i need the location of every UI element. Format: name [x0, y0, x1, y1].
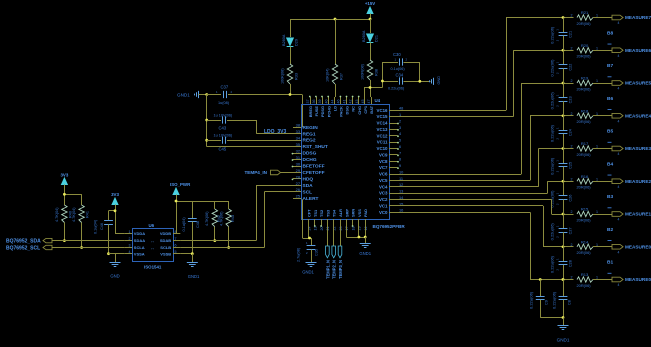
pin 47 BAT: [371, 97, 373, 104]
svg-text:C45: C45: [219, 147, 227, 152]
junction cap block: [381, 80, 384, 83]
svg-text:25: 25: [296, 194, 300, 199]
port MEASURE2: [612, 179, 623, 184]
pin 5 VSSB: [173, 253, 180, 255]
wire to port MEASURE0-: [593, 279, 612, 281]
pin 39 PDSG: [322, 97, 324, 104]
wire SDA bus: [52, 240, 125, 242]
wire to port MEASURE5: [593, 83, 612, 85]
svg-text:4: 4: [618, 119, 620, 123]
svg-text:1: 1: [596, 14, 598, 18]
svg-text:MEASURE5: MEASURE5: [625, 81, 651, 86]
wire VC0 to row9: [398, 212, 531, 214]
svg-text:46: 46: [337, 100, 341, 104]
pin 19 VSS: [358, 219, 360, 226]
svg-text:7: 7: [399, 150, 401, 155]
wire R37 to pin LD: [335, 84, 337, 97]
svg-text:29: 29: [296, 168, 300, 173]
svg-text:43: 43: [355, 100, 359, 104]
pin 27 SDA: [293, 185, 301, 187]
svg-text:4: 4: [618, 185, 620, 189]
svg-text:GND1: GND1: [359, 251, 371, 256]
svg-text:3: 3: [399, 125, 401, 130]
junction row 1: [562, 16, 565, 19]
junction row 9: [562, 278, 565, 281]
svg-text:GND1: GND1: [557, 338, 570, 343]
wire row MEASURE0: [543, 246, 574, 248]
svg-text:BQ76952PFBR: BQ76952PFBR: [373, 224, 406, 229]
wire row MEASURE7: [506, 17, 574, 19]
wire SDAB bus: [180, 240, 256, 242]
pin 30 BFETOFF: [293, 166, 301, 168]
pin 11 VC5: [389, 180, 398, 182]
capacitor C46: [108, 211, 110, 221]
wire C30 right: [404, 62, 420, 64]
ground GND1 top right: [433, 78, 435, 85]
capacitor C9: [540, 280, 542, 297]
junction row9 C9: [539, 278, 542, 281]
ground GND1 bottom of U4: [365, 237, 367, 244]
svg-text:2: 2: [571, 177, 573, 181]
svg-text:MEASURE4: MEASURE4: [625, 113, 651, 118]
svg-text:↔: ↔: [150, 246, 154, 251]
svg-text:1u 10V(06): 1u 10V(06): [214, 114, 234, 118]
pin 48 VC16: [389, 110, 398, 112]
svg-text:SRN: SRN: [351, 209, 356, 217]
pin 7 VC9: [389, 154, 398, 156]
pin 32 DDSG: [293, 153, 301, 155]
svg-text:SCLA: SCLA: [134, 245, 145, 250]
svg-text:0.1u(04): 0.1u(04): [94, 219, 98, 234]
wire pin24 down: [308, 226, 310, 239]
wire VC16 to row1: [398, 110, 507, 112]
svg-text:D21: D21: [375, 35, 379, 42]
svg-text:0.22u(06): 0.22u(06): [529, 291, 534, 309]
wire SDA: [256, 185, 293, 187]
junction ISO_PWR: [175, 200, 178, 203]
svg-text:R38: R38: [375, 69, 379, 76]
svg-text:+15V: +15V: [365, 1, 375, 6]
svg-text:R13: R13: [581, 272, 589, 277]
wire to port MEASURE7: [593, 17, 612, 19]
svg-text:C27: C27: [569, 227, 573, 234]
wire R43 drop: [228, 201, 230, 209]
no-connect markers right pins: [397, 123, 399, 125]
svg-text:VSS: VSS: [357, 209, 362, 217]
pin 36 FUSE: [316, 97, 318, 104]
wire +15V rail: [370, 14, 372, 20]
pin 6 VC10: [389, 148, 398, 150]
junction 3V3-C46: [114, 209, 117, 212]
svg-text:41: 41: [343, 100, 347, 104]
svg-text:7: 7: [175, 237, 177, 241]
capacitor C26: [563, 181, 565, 196]
wire to D29: [290, 19, 292, 37]
pin 23 ALR: [340, 219, 342, 226]
svg-text:CP1: CP1: [363, 105, 368, 113]
svg-text:20R(06): 20R(06): [577, 283, 592, 288]
capacitor C45: [207, 140, 221, 142]
wire VC15 to row2: [398, 116, 514, 118]
svg-text:VC11: VC11: [377, 140, 388, 145]
junction VSS b: [364, 236, 367, 239]
svg-text:2: 2: [571, 46, 573, 50]
svg-text:VC8: VC8: [379, 159, 388, 164]
svg-text:VC4: VC4: [379, 184, 388, 189]
svg-text:20R(06): 20R(06): [577, 119, 592, 124]
svg-text:0.22u(06): 0.22u(06): [550, 157, 555, 175]
pin 38 REGIN: [293, 127, 301, 129]
junction row 2: [562, 49, 565, 52]
svg-text:4: 4: [618, 54, 620, 58]
pin 2 VC14: [389, 123, 398, 125]
wire R38 to BAT node: [370, 80, 372, 88]
svg-text:4: 4: [618, 250, 620, 254]
wire GND1 to C37: [207, 94, 221, 96]
pin 34 REG2: [293, 140, 301, 142]
wire GND rail down: [206, 95, 208, 147]
wire row MEASURE1: [552, 214, 574, 216]
wire to port MEASURE6: [593, 50, 612, 52]
svg-text:4: 4: [618, 87, 620, 91]
svg-text:0.1u(06): 0.1u(06): [391, 67, 406, 71]
wire row MEASURE4: [530, 115, 574, 117]
svg-text:C9: C9: [545, 300, 549, 305]
wire R41 to SCL: [81, 223, 83, 248]
wire row MEASURE3: [539, 148, 574, 150]
svg-text:2: 2: [399, 118, 401, 123]
svg-text:MEASURE0: MEASURE0: [625, 244, 651, 249]
svg-text:2: 2: [571, 14, 573, 18]
wire VC2 to row7: [398, 199, 552, 201]
svg-text:28: 28: [296, 174, 300, 179]
svg-text:24: 24: [307, 227, 311, 231]
ground GND1 under ISO1541: [187, 262, 198, 264]
junction C48-VSSB: [191, 252, 194, 255]
svg-text:8: 8: [399, 157, 401, 162]
svg-text:38: 38: [296, 123, 300, 128]
svg-text:C46: C46: [100, 223, 104, 230]
wire 3V3 to VDDA: [115, 205, 117, 234]
svg-text:3V3: 3V3: [60, 173, 68, 178]
svg-text:SDAB: SDAB: [160, 238, 171, 243]
svg-text:4.7K(06): 4.7K(06): [219, 211, 223, 226]
junction 3V3: [63, 193, 66, 196]
ic U4 BQ76952: [302, 105, 390, 220]
svg-text:R18: R18: [581, 108, 589, 113]
junction C43: [205, 119, 208, 122]
wire to D21: [370, 19, 372, 33]
wire R37 branch: [335, 19, 337, 64]
svg-text:0.22u(06): 0.22u(06): [550, 223, 555, 241]
junction row 5: [562, 147, 565, 150]
svg-text:100R(08): 100R(08): [361, 63, 365, 80]
svg-text:2.7u(08): 2.7u(08): [297, 247, 301, 262]
pin 46 PACK: [340, 97, 342, 104]
power 3V3 mid: [112, 198, 118, 205]
pin 26 SCL: [293, 191, 301, 193]
port TEMP2_N: [333, 226, 335, 247]
svg-text:VSSB: VSSB: [160, 251, 171, 256]
svg-text:LDO_3V3: LDO_3V3: [264, 129, 286, 135]
svg-text:BQ76952_SDA: BQ76952_SDA: [6, 239, 41, 245]
svg-text:VC12: VC12: [377, 133, 389, 138]
pin 45 CP1: [364, 97, 366, 104]
svg-text:TEMP3_N: TEMP3_N: [338, 260, 343, 279]
wire GND to RST_SHUT: [207, 146, 293, 148]
svg-text:20R(06): 20R(06): [577, 250, 592, 255]
svg-text:C23: C23: [569, 96, 573, 103]
svg-text:0.22u(06): 0.22u(06): [550, 124, 555, 142]
svg-text:27: 27: [296, 181, 300, 186]
svg-text:R37: R37: [340, 73, 344, 80]
capacitor C35: [311, 238, 313, 246]
pin 8 VDDB: [173, 233, 180, 235]
svg-text:B260A: B260A: [362, 30, 366, 42]
junction C46-VSSA: [107, 252, 110, 255]
svg-text:C34: C34: [396, 73, 404, 78]
wire C34 right to GND: [404, 81, 420, 83]
wire VSS group: [346, 226, 348, 238]
svg-text:4.7K(06): 4.7K(06): [205, 211, 209, 226]
pin 3 SCLA: [125, 247, 132, 249]
svg-text:ALERT: ALERT: [303, 196, 319, 202]
svg-text:R41: R41: [86, 211, 90, 218]
svg-text:47: 47: [367, 100, 371, 104]
wire to port MEASURE4: [593, 115, 612, 117]
svg-text:D29: D29: [295, 39, 299, 46]
wire caps to GND: [540, 317, 563, 319]
svg-text:35: 35: [296, 142, 300, 147]
svg-text:R17: R17: [581, 141, 589, 146]
svg-text:R43: R43: [231, 215, 235, 222]
svg-text:ISO_PWR: ISO_PWR: [170, 182, 191, 187]
pin 7 SDAB: [173, 240, 180, 242]
svg-text:TS2: TS2: [319, 209, 324, 217]
diode D29: [287, 38, 294, 46]
svg-text:MEASURE6: MEASURE6: [625, 48, 651, 53]
svg-text:4.7K(04): 4.7K(04): [72, 207, 76, 222]
svg-text:LD: LD: [332, 106, 337, 111]
ground GND1 left: [198, 91, 200, 98]
ground GND1 under C35: [306, 262, 317, 264]
wire ALERT filter: [302, 199, 304, 238]
svg-text:20R(06): 20R(06): [577, 185, 592, 190]
pin 17 SRP: [346, 219, 348, 226]
svg-text:2: 2: [571, 210, 573, 214]
wire C48 drop: [192, 201, 194, 218]
svg-text:VC2: VC2: [379, 197, 388, 202]
svg-text:4: 4: [618, 152, 620, 156]
svg-text:VDDB: VDDB: [160, 231, 171, 236]
pin 4 VSSA: [125, 253, 132, 255]
port MEASURE0-: [612, 277, 623, 282]
resistor R42: [212, 209, 217, 227]
svg-text:SRP: SRP: [344, 209, 349, 217]
svg-text:20R(06): 20R(06): [577, 86, 592, 91]
junction R40-SDA: [63, 239, 66, 242]
svg-text:1: 1: [596, 276, 598, 280]
svg-text:R16: R16: [581, 174, 589, 179]
junction C45: [205, 139, 208, 142]
wire VSSB to GND1: [180, 253, 192, 255]
svg-text:42: 42: [349, 100, 353, 104]
svg-text:20R(06): 20R(06): [577, 217, 592, 222]
pin 42 NC: [352, 97, 354, 104]
svg-text:6: 6: [175, 244, 177, 248]
svg-text:26: 26: [296, 187, 300, 192]
svg-text:R21: R21: [581, 10, 589, 15]
svg-text:VC10: VC10: [377, 146, 389, 151]
svg-text:TS3: TS3: [325, 209, 330, 217]
svg-text:2: 2: [571, 243, 573, 247]
junction row 3: [562, 82, 565, 85]
junction row 7: [562, 213, 565, 216]
svg-text:13: 13: [314, 227, 318, 231]
junction R41-SCL: [80, 246, 83, 249]
svg-text:2: 2: [571, 145, 573, 149]
svg-text:ISO1541: ISO1541: [144, 265, 162, 270]
wire SCL: [264, 191, 293, 193]
pin 14 VC2: [389, 199, 398, 201]
pin 29 CFETOFF: [293, 172, 301, 174]
svg-text:TEMP4_IN: TEMP4_IN: [245, 170, 268, 175]
pin 35 RST_SHUT: [293, 146, 301, 148]
svg-text:C21: C21: [569, 31, 573, 38]
wire VC4 to row5: [398, 186, 539, 188]
pin 2 SDAA: [125, 240, 132, 242]
wire SCLB bus: [180, 247, 264, 249]
svg-text:CFT: CFT: [307, 209, 312, 217]
svg-text:R14: R14: [581, 239, 589, 244]
pin 12 PAD: [365, 219, 367, 226]
wire C43 to REG1: [256, 120, 258, 134]
svg-text:1: 1: [596, 79, 598, 83]
svg-text:C22: C22: [569, 64, 573, 71]
svg-text:TS1: TS1: [313, 209, 318, 217]
svg-text:39: 39: [318, 100, 322, 104]
junction R43-SCLB: [227, 246, 230, 249]
junction GND rail: [205, 93, 208, 96]
svg-text:44: 44: [330, 100, 334, 104]
svg-text:B8: B8: [607, 30, 613, 36]
svg-text:VC16: VC16: [377, 108, 389, 113]
resistor R41: [79, 205, 84, 223]
wire row MEASURE0-: [530, 279, 574, 281]
svg-text:45: 45: [361, 100, 365, 104]
junction +15V: [369, 18, 372, 21]
svg-text:1u(08): 1u(08): [218, 101, 230, 105]
svg-text:4: 4: [129, 250, 131, 254]
junction R37 top: [334, 18, 337, 21]
wire VC3 to row6: [398, 193, 548, 195]
wire VC6 to row3: [398, 174, 522, 176]
svg-text:0.1u(04): 0.1u(04): [182, 217, 186, 232]
power ISO_PWR: [173, 188, 179, 195]
pin 33 REG1: [293, 133, 301, 135]
svg-text:20R(06): 20R(06): [577, 21, 592, 26]
junction C35 node: [308, 237, 311, 240]
wire R40 to SDA: [64, 223, 66, 241]
svg-text:SCL: SCL: [303, 189, 313, 195]
wire TEMP4_IN to CFETOFF: [281, 172, 294, 174]
svg-text:C37: C37: [221, 85, 229, 90]
svg-text:TS4: TS4: [332, 209, 337, 217]
wire D29-R33: [290, 47, 292, 65]
wire VC1 to row8: [398, 205, 544, 207]
svg-text:VC9: VC9: [379, 152, 388, 157]
svg-text:R19: R19: [581, 76, 589, 81]
junction C34-GND: [418, 80, 421, 83]
junction VSS a: [358, 236, 361, 239]
port MEASURE7: [612, 15, 623, 20]
pin 20 TS2: [321, 219, 323, 226]
svg-text:BREG: BREG: [308, 106, 313, 117]
svg-text:REG2: REG2: [303, 138, 316, 144]
svg-text:C43: C43: [219, 126, 227, 131]
svg-text:U6: U6: [149, 223, 155, 228]
svg-text:GND1: GND1: [177, 92, 190, 97]
svg-text:GND1: GND1: [188, 274, 200, 279]
pin 24 CFT: [308, 219, 310, 226]
pin 16 VC0: [389, 212, 398, 214]
svg-text:13: 13: [399, 189, 403, 194]
wire cap block left: [382, 62, 384, 88]
power 3V3 left: [61, 178, 67, 185]
svg-text:2: 2: [129, 237, 131, 241]
svg-text:VC5: VC5: [379, 178, 388, 183]
pin 25 ALERT: [293, 198, 301, 200]
svg-text:R15: R15: [581, 207, 589, 212]
pin 18 SRN: [352, 219, 354, 226]
svg-text:40: 40: [324, 100, 328, 104]
svg-text:1: 1: [596, 46, 598, 50]
pin 43 CHG: [358, 97, 360, 104]
capacitor C48: [188, 218, 197, 220]
svg-text:↔: ↔: [150, 239, 154, 244]
svg-text:MEASURE0-: MEASURE0-: [625, 277, 651, 282]
svg-text:RST_SHUT: RST_SHUT: [303, 144, 328, 150]
svg-text:16: 16: [399, 208, 403, 213]
svg-text:SDAA: SDAA: [134, 238, 145, 243]
svg-text:4.7K(04): 4.7K(04): [55, 207, 59, 222]
svg-text:0.22u(06): 0.22u(06): [551, 291, 556, 309]
wire row MEASURE6: [513, 50, 573, 52]
svg-text:MEASURE1: MEASURE1: [625, 212, 651, 217]
wire ISO_PWR rail: [176, 195, 178, 234]
svg-text:NC: NC: [351, 106, 356, 112]
wire down to REGIN pin: [302, 95, 304, 128]
pin 28 HDQ: [293, 178, 301, 180]
svg-text:5: 5: [175, 250, 177, 254]
capacitor C30: [399, 58, 401, 65]
svg-text:20R(06): 20R(06): [577, 152, 592, 157]
pin 41 DSG: [346, 97, 348, 104]
junction row 4: [562, 114, 565, 117]
pin 15 VC1: [389, 205, 398, 207]
capacitor C25: [563, 149, 565, 164]
capacitor C23: [563, 83, 565, 98]
svg-text:B1: B1: [607, 260, 613, 266]
svg-text:BAT: BAT: [369, 105, 374, 113]
no-connect markers bottom pins: [314, 225, 316, 227]
svg-text:48: 48: [399, 106, 403, 111]
svg-text:4: 4: [618, 21, 620, 25]
port MEASURE4: [612, 113, 623, 118]
svg-text:3V3: 3V3: [111, 192, 119, 197]
capacitor C43: [207, 120, 221, 122]
no-connect markers top pins: [309, 96, 311, 98]
